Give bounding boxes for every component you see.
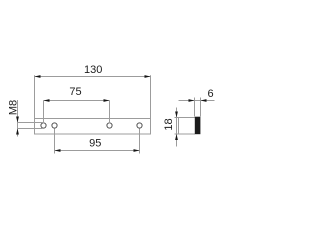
dim 6 extension line left	[194, 98, 196, 117]
hole 3	[107, 123, 112, 128]
svg-text:6: 6	[207, 88, 213, 100]
dim M8 arrow bottom (points up)	[16, 129, 19, 135]
dim 18 dimension line (vertical)	[176, 108, 178, 147]
side view bottom edge with extension	[175, 133, 196, 135]
dim M8 arrow top (points down)	[16, 117, 19, 123]
dim 95 arrow left	[55, 149, 61, 152]
dim 130 arrow left	[35, 75, 41, 78]
dim 6 dimension line	[179, 100, 215, 102]
dim 75 arrow right	[104, 99, 110, 102]
dim M8 leader line top	[18, 122, 44, 124]
hole 1 (M8 tapped)	[41, 123, 46, 128]
svg-text:75: 75	[69, 86, 81, 98]
dim M8 dimension line (vertical)	[17, 100, 19, 137]
svg-text:95: 95	[89, 138, 101, 150]
dim 130 extension line left	[34, 75, 36, 118]
dim M8 leader line bottom	[18, 128, 43, 130]
dim 95 extension line left	[54, 129, 56, 154]
dim 75 extension line right	[109, 101, 111, 124]
side view plate section (6 thick, filled)	[195, 117, 201, 135]
svg-text:M8: M8	[8, 100, 20, 115]
hole 4	[137, 123, 142, 128]
dim 130 dimension line	[35, 76, 151, 78]
hole 2	[52, 123, 57, 128]
plate outline (front view 130x18)	[35, 119, 151, 135]
dim 75 dimension line	[44, 100, 110, 102]
dim 95 arrow right	[134, 149, 140, 152]
dim 95 extension line right	[139, 129, 141, 154]
side view top edge with extension	[175, 117, 196, 119]
dim 95 dimension line	[55, 150, 140, 152]
dim 18 arrow top (points down)	[175, 112, 178, 118]
svg-text:130: 130	[84, 64, 102, 76]
dim 75 extension line left	[43, 101, 45, 124]
dim 130 extension line right	[150, 75, 152, 118]
svg-text:18: 18	[163, 118, 175, 130]
dim 6 arrow left (points right)	[189, 99, 195, 102]
dim 130 arrow right	[145, 75, 151, 78]
dim 18 arrow bottom (points up)	[175, 134, 178, 140]
dim 6 extension line right	[200, 98, 202, 117]
side view left edge	[178, 118, 180, 135]
dim 75 arrow left	[44, 99, 50, 102]
dim 6 arrow right (points left)	[201, 99, 207, 102]
